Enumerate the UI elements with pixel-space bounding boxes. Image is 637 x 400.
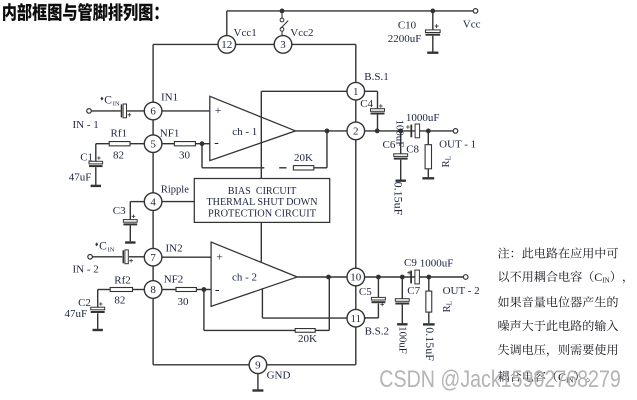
- svg-text:30: 30: [178, 296, 190, 308]
- svg-text:IN1: IN1: [161, 92, 178, 104]
- svg-text:B.S.2: B.S.2: [365, 326, 389, 338]
- svg-text:Vcc: Vcc: [463, 19, 481, 31]
- svg-text:THERMAL SHUT DOWN: THERMAL SHUT DOWN: [207, 196, 318, 208]
- svg-text:100uF: 100uF: [394, 120, 406, 148]
- svg-text:82: 82: [113, 150, 124, 162]
- svg-text:47uF: 47uF: [69, 171, 92, 183]
- svg-text:OUT - 2: OUT - 2: [443, 285, 480, 297]
- svg-text:C9: C9: [404, 257, 417, 269]
- svg-text:3: 3: [280, 39, 286, 51]
- svg-text:PROTECTION CIRCUIT: PROTECTION CIRCUIT: [208, 208, 316, 220]
- svg-text:C3: C3: [113, 205, 126, 217]
- svg-text:RL: RL: [441, 155, 453, 167]
- svg-text:+: +: [216, 251, 223, 263]
- svg-text:1000uF: 1000uF: [420, 258, 454, 270]
- svg-text:C4: C4: [360, 98, 373, 110]
- svg-text:IN: IN: [113, 100, 120, 107]
- svg-text:82: 82: [114, 295, 125, 307]
- svg-text:47uF: 47uF: [65, 308, 88, 320]
- svg-text:C10: C10: [398, 19, 417, 31]
- svg-text:RL: RL: [442, 300, 454, 312]
- svg-text:7: 7: [150, 252, 156, 264]
- svg-text:2200uF: 2200uF: [388, 33, 422, 45]
- svg-text:IN - 1: IN - 1: [73, 119, 99, 131]
- svg-text:20K: 20K: [298, 333, 317, 345]
- svg-text:Rf2: Rf2: [114, 274, 131, 286]
- svg-text:6: 6: [150, 106, 156, 118]
- svg-text:5: 5: [150, 138, 156, 150]
- svg-text:30: 30: [179, 150, 191, 162]
- svg-text:ch - 2: ch - 2: [232, 272, 257, 284]
- svg-text:C7: C7: [407, 285, 420, 297]
- svg-text:9: 9: [255, 360, 261, 372]
- svg-text:C8: C8: [406, 144, 419, 156]
- svg-text:IN: IN: [108, 246, 115, 253]
- svg-text:8: 8: [150, 284, 156, 296]
- svg-text:12: 12: [221, 39, 232, 51]
- svg-text:C: C: [99, 240, 107, 252]
- svg-text:C: C: [104, 94, 112, 106]
- svg-text:1: 1: [353, 86, 359, 98]
- svg-text:Rf1: Rf1: [111, 127, 128, 139]
- svg-text:B.S.1: B.S.1: [364, 71, 388, 83]
- svg-text:ch - 1: ch - 1: [232, 126, 257, 138]
- svg-text:1000uF: 1000uF: [406, 112, 440, 124]
- svg-text:CSDN @Jack15902768279: CSDN @Jack15902768279: [379, 366, 621, 393]
- svg-text:+: +: [215, 105, 222, 117]
- svg-text:Vcc2: Vcc2: [290, 27, 313, 39]
- svg-text:0.15uF: 0.15uF: [423, 327, 437, 361]
- svg-text:C1: C1: [80, 151, 93, 163]
- svg-text:100uF: 100uF: [396, 326, 408, 354]
- svg-text:GND: GND: [267, 370, 291, 382]
- svg-text:NF2: NF2: [164, 274, 184, 286]
- svg-text:11: 11: [351, 313, 362, 325]
- svg-text:2: 2: [353, 126, 359, 138]
- svg-text:0.15uF: 0.15uF: [392, 182, 406, 216]
- svg-text:Vcc1: Vcc1: [234, 27, 257, 39]
- svg-text:-: -: [215, 282, 220, 297]
- svg-text:NF1: NF1: [160, 127, 180, 139]
- svg-text:-: -: [214, 136, 219, 151]
- svg-text:IN2: IN2: [166, 243, 183, 255]
- svg-text:Ripple: Ripple: [161, 184, 189, 195]
- svg-text:OUT - 1: OUT - 1: [439, 139, 476, 151]
- svg-text:BIAS CIRCUIT: BIAS CIRCUIT: [228, 185, 297, 197]
- svg-text:4: 4: [150, 196, 156, 208]
- svg-text:IN - 2: IN - 2: [73, 263, 99, 275]
- svg-text:C5: C5: [359, 286, 372, 298]
- svg-text:20K: 20K: [294, 152, 313, 164]
- svg-text:10: 10: [350, 272, 362, 284]
